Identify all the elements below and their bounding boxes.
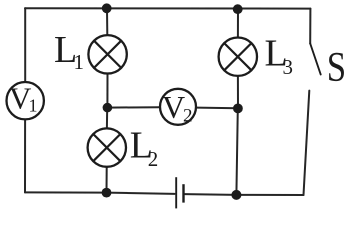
wire left: V1 down to bottom-left corner xyxy=(24,121,26,193)
wire L2 branch lower (L2 to bottom node) xyxy=(106,168,108,193)
lamp L2 xyxy=(88,128,126,166)
svg-text:2: 2 xyxy=(183,105,193,126)
svg-text:1: 1 xyxy=(74,50,85,74)
wire L1 branch lower (L1 to node) xyxy=(106,75,108,108)
svg-text:3: 3 xyxy=(283,55,294,79)
wire top rail xyxy=(25,7,310,9)
switch S blade xyxy=(310,44,321,75)
battery xyxy=(176,177,183,208)
wire L3 branch lower (node to bottom node) xyxy=(236,108,237,195)
label L1 xyxy=(54,29,84,74)
lamp L3 xyxy=(219,38,257,76)
node: middle-left junction (L1/L2/V2) xyxy=(103,103,113,113)
node: bottom-left junction (L2 / bottom rail) xyxy=(102,188,112,198)
wire bottom rail left segment (to battery) xyxy=(25,192,175,194)
voltmeter V2 xyxy=(160,89,196,127)
svg-text:V: V xyxy=(162,89,185,125)
node: top-left junction (L1 branch / top rail) xyxy=(102,3,112,13)
label L2 xyxy=(130,125,159,171)
wire L1 branch upper xyxy=(106,8,108,34)
svg-text:1: 1 xyxy=(29,96,38,116)
wire left: top-left corner down to V1 xyxy=(24,8,26,81)
wire right: switch lower terminal down to bottom-right corner xyxy=(304,91,310,195)
wire right: top-right corner down to switch xyxy=(309,9,311,44)
label L3 xyxy=(265,32,294,79)
voltmeter V1 xyxy=(7,81,44,120)
node: top-right junction (L3 branch / top rail) xyxy=(233,4,243,14)
wire bottom rail right segment (battery to bottom-right corner) xyxy=(185,193,304,196)
wire L3 branch middle (L3 to node) xyxy=(237,77,239,108)
svg-text:2: 2 xyxy=(148,147,159,171)
wire middle left (node to V2) xyxy=(107,106,159,108)
node: bottom-right junction (L3 branch / bottom rail) xyxy=(231,190,241,200)
svg-text:S: S xyxy=(327,44,345,91)
node: middle-right junction (L3/V2) xyxy=(233,104,243,114)
wire L3 branch upper xyxy=(237,9,239,37)
wire L2 branch upper (node to L2) xyxy=(106,108,108,128)
wire middle right (V2 to node) xyxy=(197,107,238,110)
lamp L1 xyxy=(88,35,126,73)
